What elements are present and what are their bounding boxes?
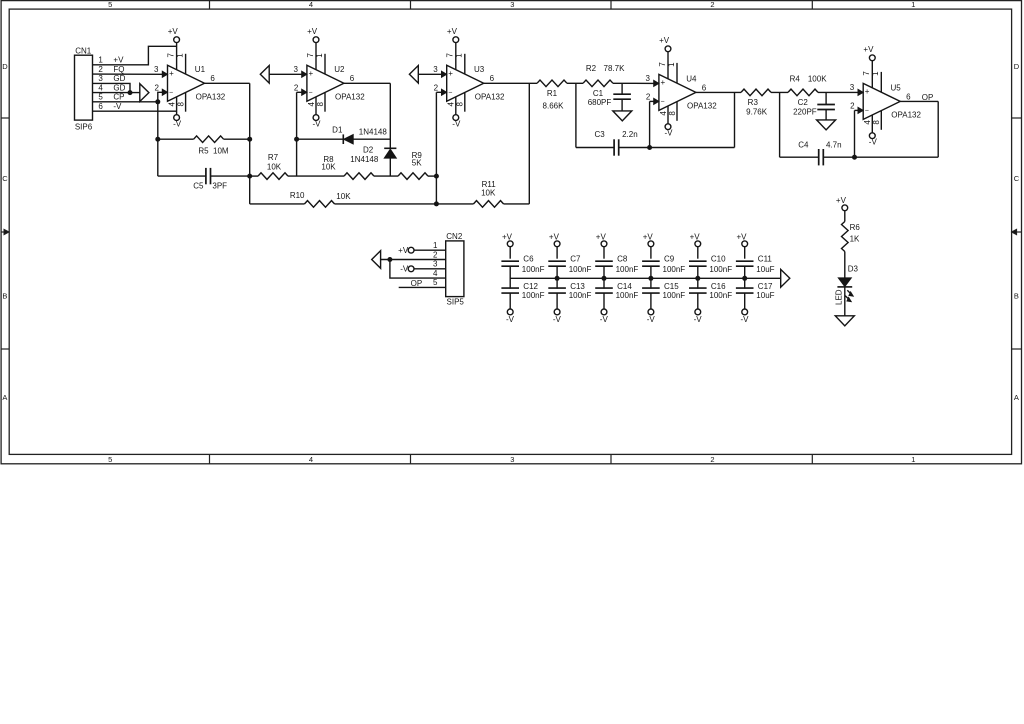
svg-text:+V: +V xyxy=(690,232,701,241)
svg-text:6: 6 xyxy=(210,74,215,83)
svg-text:LED: LED xyxy=(834,289,843,305)
svg-text:7: 7 xyxy=(306,53,315,58)
svg-text:2: 2 xyxy=(433,250,438,259)
svg-text:+V: +V xyxy=(596,232,607,241)
svg-text:C1: C1 xyxy=(593,89,604,98)
svg-text:-V: -V xyxy=(173,120,182,129)
svg-text:100nF: 100nF xyxy=(663,291,686,300)
svg-text:R5: R5 xyxy=(198,147,209,156)
svg-text:3: 3 xyxy=(433,65,438,74)
svg-text:-V: -V xyxy=(600,315,609,324)
svg-text:OPA132: OPA132 xyxy=(475,93,505,102)
svg-text:2.2n: 2.2n xyxy=(622,130,638,139)
svg-text:C15: C15 xyxy=(664,282,679,291)
svg-text:C6: C6 xyxy=(523,255,534,264)
svg-text:-V: -V xyxy=(313,120,322,129)
svg-text:3PF: 3PF xyxy=(212,181,227,190)
svg-text:A: A xyxy=(1014,393,1019,402)
svg-text:C13: C13 xyxy=(570,282,585,291)
svg-text:6: 6 xyxy=(490,74,495,83)
svg-text:+V: +V xyxy=(659,36,670,45)
svg-text:D: D xyxy=(2,62,8,71)
svg-text:100K: 100K xyxy=(808,74,827,83)
svg-text:78.7K: 78.7K xyxy=(604,64,626,73)
svg-text:7: 7 xyxy=(446,53,455,58)
svg-text:+: + xyxy=(448,69,453,78)
svg-text:C4: C4 xyxy=(798,140,809,149)
svg-text:100nF: 100nF xyxy=(569,291,592,300)
svg-text:C12: C12 xyxy=(523,282,538,291)
svg-text:+V: +V xyxy=(836,196,847,205)
svg-text:R3: R3 xyxy=(748,98,759,107)
svg-text:6: 6 xyxy=(98,102,103,111)
svg-text:CN2: CN2 xyxy=(446,232,463,241)
svg-text:U5: U5 xyxy=(891,83,902,92)
svg-text:+V: +V xyxy=(863,45,874,54)
svg-text:2: 2 xyxy=(98,65,103,74)
svg-text:8.66K: 8.66K xyxy=(543,102,565,111)
svg-text:100nF: 100nF xyxy=(616,265,639,274)
svg-text:OPA132: OPA132 xyxy=(335,93,365,102)
svg-text:C16: C16 xyxy=(711,282,726,291)
svg-text:C10: C10 xyxy=(711,255,726,264)
svg-text:+V: +V xyxy=(643,232,654,241)
svg-text:C11: C11 xyxy=(758,255,773,264)
svg-text:220PF: 220PF xyxy=(793,108,817,117)
svg-text:1: 1 xyxy=(175,53,184,58)
svg-text:1: 1 xyxy=(871,71,880,76)
svg-text:FQ: FQ xyxy=(113,65,124,74)
svg-text:3: 3 xyxy=(645,74,650,83)
svg-text:−: − xyxy=(169,90,173,97)
svg-text:-V: -V xyxy=(553,315,562,324)
svg-text:1N4148: 1N4148 xyxy=(350,155,379,164)
svg-text:SIP6: SIP6 xyxy=(75,122,93,131)
svg-text:3: 3 xyxy=(293,65,298,74)
svg-text:C2: C2 xyxy=(798,98,809,107)
svg-text:2: 2 xyxy=(434,84,439,93)
svg-text:OPA132: OPA132 xyxy=(891,111,921,120)
svg-text:10uF: 10uF xyxy=(756,265,774,274)
svg-text:7: 7 xyxy=(658,62,667,67)
svg-text:-V: -V xyxy=(506,315,515,324)
svg-text:D3: D3 xyxy=(848,265,859,274)
svg-text:2: 2 xyxy=(294,84,299,93)
svg-text:10M: 10M xyxy=(213,147,229,156)
svg-text:2: 2 xyxy=(710,455,714,464)
svg-text:B: B xyxy=(1014,292,1019,301)
svg-text:−: − xyxy=(865,108,869,115)
svg-text:SIP5: SIP5 xyxy=(447,297,465,306)
svg-text:+: + xyxy=(169,69,174,78)
svg-text:3: 3 xyxy=(850,83,855,92)
svg-text:1: 1 xyxy=(911,455,915,464)
svg-text:R6: R6 xyxy=(850,223,861,232)
svg-text:-V: -V xyxy=(694,315,703,324)
svg-text:10K: 10K xyxy=(481,189,496,198)
svg-text:1: 1 xyxy=(911,0,915,9)
svg-text:+V: +V xyxy=(502,232,513,241)
svg-text:+V: +V xyxy=(168,27,179,36)
svg-text:2: 2 xyxy=(850,102,855,111)
svg-text:5: 5 xyxy=(98,93,103,102)
svg-text:+V: +V xyxy=(307,27,318,36)
svg-text:+V: +V xyxy=(736,232,747,241)
svg-text:1: 1 xyxy=(455,53,464,58)
svg-text:R4: R4 xyxy=(790,74,801,83)
svg-text:3: 3 xyxy=(510,455,514,464)
svg-text:5: 5 xyxy=(108,0,112,9)
svg-text:1: 1 xyxy=(667,62,676,67)
svg-text:5: 5 xyxy=(433,278,438,287)
svg-text:100nF: 100nF xyxy=(569,265,592,274)
svg-text:+V: +V xyxy=(113,56,124,65)
svg-text:10K: 10K xyxy=(321,162,336,171)
svg-text:3: 3 xyxy=(433,260,438,269)
svg-text:-V: -V xyxy=(741,315,750,324)
svg-text:3: 3 xyxy=(154,65,159,74)
svg-text:D: D xyxy=(1014,62,1020,71)
svg-text:−: − xyxy=(308,90,312,97)
svg-text:1K: 1K xyxy=(850,235,860,244)
svg-text:OP: OP xyxy=(411,279,423,288)
svg-text:D1: D1 xyxy=(332,125,343,134)
svg-text:4: 4 xyxy=(309,455,313,464)
svg-text:R7: R7 xyxy=(268,153,279,162)
svg-text:4: 4 xyxy=(863,120,872,125)
svg-text:680PF: 680PF xyxy=(588,98,612,107)
svg-text:1: 1 xyxy=(98,56,103,65)
svg-text:5K: 5K xyxy=(412,158,422,167)
svg-text:8: 8 xyxy=(872,120,881,125)
svg-text:GD: GD xyxy=(113,74,125,83)
svg-text:+: + xyxy=(308,69,313,78)
svg-text:100nF: 100nF xyxy=(709,265,732,274)
svg-text:100nF: 100nF xyxy=(522,265,545,274)
svg-text:1: 1 xyxy=(315,53,324,58)
svg-text:C: C xyxy=(2,174,8,183)
svg-text:+: + xyxy=(865,87,870,96)
svg-text:10K: 10K xyxy=(336,192,351,201)
svg-text:100nF: 100nF xyxy=(522,291,545,300)
svg-text:−: − xyxy=(448,90,452,97)
svg-text:4: 4 xyxy=(307,102,316,107)
svg-text:6: 6 xyxy=(702,83,707,92)
svg-text:8: 8 xyxy=(316,102,325,107)
svg-text:+V: +V xyxy=(549,232,560,241)
svg-text:7: 7 xyxy=(862,71,871,76)
svg-text:4: 4 xyxy=(98,83,103,92)
svg-text:R10: R10 xyxy=(290,191,305,200)
svg-text:10K: 10K xyxy=(267,162,282,171)
svg-text:U2: U2 xyxy=(334,65,345,74)
svg-text:U1: U1 xyxy=(195,65,206,74)
svg-text:C8: C8 xyxy=(617,255,628,264)
svg-text:4: 4 xyxy=(447,102,456,107)
svg-text:2: 2 xyxy=(646,93,651,102)
svg-text:-V: -V xyxy=(400,265,409,274)
svg-text:C3: C3 xyxy=(594,130,605,139)
svg-text:100nF: 100nF xyxy=(709,291,732,300)
svg-text:6: 6 xyxy=(350,74,355,83)
svg-text:GD: GD xyxy=(113,83,125,92)
svg-text:CN1: CN1 xyxy=(75,47,92,56)
svg-text:R1: R1 xyxy=(547,89,558,98)
svg-text:5: 5 xyxy=(108,455,112,464)
svg-text:4: 4 xyxy=(433,269,438,278)
svg-text:-V: -V xyxy=(113,102,122,111)
svg-text:C14: C14 xyxy=(617,282,632,291)
svg-text:1: 1 xyxy=(433,241,438,250)
svg-text:4: 4 xyxy=(659,111,668,116)
svg-text:-V: -V xyxy=(452,120,461,129)
svg-text:6: 6 xyxy=(906,92,911,101)
svg-text:OPA132: OPA132 xyxy=(687,102,717,111)
svg-text:C5: C5 xyxy=(193,181,204,190)
svg-text:+: + xyxy=(660,78,665,87)
svg-text:U3: U3 xyxy=(474,65,485,74)
svg-text:U4: U4 xyxy=(686,74,697,83)
svg-text:9.76K: 9.76K xyxy=(746,108,768,117)
svg-text:C: C xyxy=(1014,174,1020,183)
svg-text:3: 3 xyxy=(98,74,103,83)
svg-text:R11: R11 xyxy=(482,180,497,189)
svg-text:+V: +V xyxy=(398,246,409,255)
svg-text:4: 4 xyxy=(167,102,176,107)
svg-text:10uF: 10uF xyxy=(756,291,774,300)
svg-text:B: B xyxy=(2,292,7,301)
svg-text:1N4148: 1N4148 xyxy=(359,127,388,136)
svg-text:−: − xyxy=(660,99,664,106)
svg-text:C17: C17 xyxy=(758,282,773,291)
svg-text:2: 2 xyxy=(154,84,159,93)
svg-text:4.7n: 4.7n xyxy=(826,140,842,149)
svg-text:+V: +V xyxy=(447,27,458,36)
svg-text:3: 3 xyxy=(510,0,514,9)
svg-text:-V: -V xyxy=(869,138,878,147)
svg-text:8: 8 xyxy=(176,102,185,107)
svg-text:C7: C7 xyxy=(570,255,581,264)
svg-text:-V: -V xyxy=(647,315,656,324)
svg-text:C9: C9 xyxy=(664,255,675,264)
svg-text:R2: R2 xyxy=(586,64,597,73)
svg-text:CP: CP xyxy=(113,93,124,102)
svg-text:8: 8 xyxy=(668,111,677,116)
svg-text:4: 4 xyxy=(309,0,313,9)
svg-text:2: 2 xyxy=(710,0,714,9)
svg-text:8: 8 xyxy=(456,102,465,107)
svg-text:-V: -V xyxy=(665,129,674,138)
svg-text:D2: D2 xyxy=(363,146,374,155)
svg-text:7: 7 xyxy=(166,53,175,58)
svg-text:100nF: 100nF xyxy=(616,291,639,300)
svg-text:OPA132: OPA132 xyxy=(196,93,226,102)
svg-text:A: A xyxy=(2,393,7,402)
svg-text:100nF: 100nF xyxy=(663,265,686,274)
